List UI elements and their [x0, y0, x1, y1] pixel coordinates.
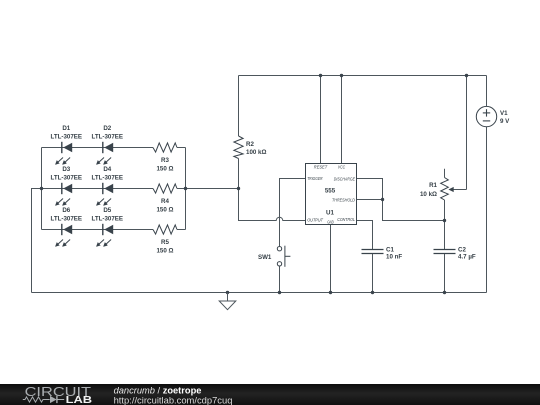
wire wiper riser — [466, 76, 468, 190]
junction R1 bottom node — [443, 219, 446, 222]
wire switch bottom to ground rail — [279, 266, 281, 292]
svg-text:LAB: LAB — [66, 395, 93, 405]
wire discharge to threshold node to R1 node — [357, 179, 445, 221]
voltage source V1 — [476, 106, 510, 126]
wire output net with hop over switch wire — [239, 189, 306, 221]
op-amp U1 555 timer — [306, 164, 357, 225]
wire R2 bottom lead — [238, 159, 240, 189]
wire top rail — [239, 75, 487, 77]
wire R1 bottom to C2 top — [444, 200, 446, 249]
wire led left bus — [41, 148, 43, 230]
junction RESET / top rail — [319, 74, 322, 77]
wire led row2 to R2 node — [186, 188, 239, 190]
wire VCC riser — [341, 76, 343, 164]
junction C2 / ground rail — [443, 291, 446, 294]
svg-text:http://circuitlab.com/cdp7cuq: http://circuitlab.com/cdp7cuq — [114, 394, 233, 405]
logo waveform resistor zigzag — [23, 397, 50, 402]
wire led row1 — [42, 147, 154, 149]
junction ground symbol / rail — [226, 291, 229, 294]
wire threshold pin — [357, 199, 383, 201]
resistor R2 — [234, 136, 267, 159]
potentiometer R1 — [420, 169, 467, 200]
R1 wiper arrow — [453, 189, 467, 191]
wire C1 bottom lead — [372, 254, 374, 293]
LED D3 — [51, 166, 83, 205]
wire RESET riser — [320, 76, 322, 164]
junction led left bus node — [40, 187, 43, 190]
footer bar — [0, 384, 540, 405]
logo diode symbol — [50, 396, 57, 403]
wire V1 bottom lead — [486, 127, 488, 293]
resistor R4 — [153, 184, 177, 213]
wire control pin to C1 — [357, 221, 373, 250]
wire trigger pin to switch — [280, 179, 306, 247]
LED D4 — [92, 166, 124, 205]
wire C2 bottom lead — [444, 254, 446, 293]
junction C1 / ground rail — [371, 291, 374, 294]
resistor R3 — [153, 143, 177, 172]
LED D5 — [92, 207, 124, 246]
junction GND pin / ground rail — [329, 291, 332, 294]
wire R2 top lead — [238, 76, 240, 137]
junction R2 bottom node — [237, 187, 240, 190]
wire bottom ground rail — [32, 292, 487, 294]
wire led row3 — [42, 229, 154, 231]
LED D6 — [51, 207, 83, 246]
wire V1 top lead — [486, 76, 488, 107]
junction threshold node — [381, 198, 384, 201]
wire GND pin drop — [330, 225, 332, 293]
junction switch / ground rail — [278, 291, 281, 294]
wire led row2 — [42, 188, 154, 190]
junction VCC / top rail — [340, 74, 343, 77]
junction led right bus node — [184, 187, 187, 190]
capacitor C1 — [362, 246, 403, 260]
LED D1 — [51, 125, 83, 164]
wire left bus drop to ground rail — [32, 189, 42, 293]
LED D2 — [92, 125, 124, 164]
capacitor C2 — [434, 246, 476, 260]
resistor R5 — [153, 225, 177, 254]
junction wiper / top rail — [465, 74, 468, 77]
ground — [219, 293, 236, 310]
switch SW1 — [258, 246, 290, 267]
wire led right bus — [185, 148, 187, 230]
